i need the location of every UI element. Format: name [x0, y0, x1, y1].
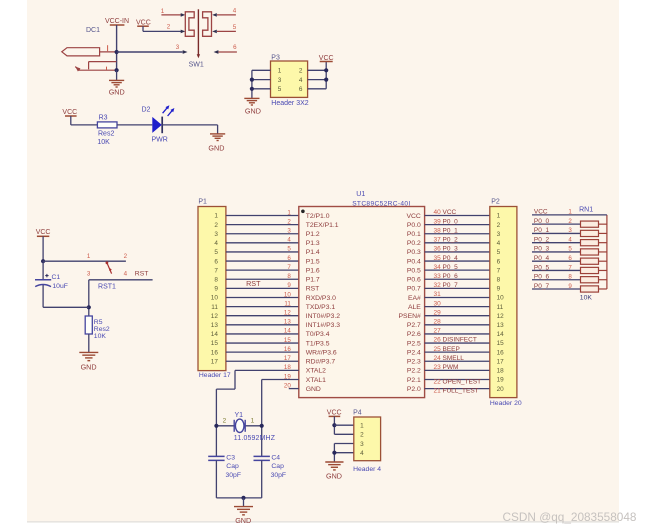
- svg-text:6: 6: [287, 255, 291, 262]
- svg-text:P2.7: P2.7: [407, 322, 421, 329]
- svg-text:P0_5: P0_5: [534, 264, 550, 271]
- svg-text:6: 6: [497, 258, 501, 265]
- svg-text:11: 11: [284, 300, 291, 307]
- svg-text:T2/P1.0: T2/P1.0: [306, 213, 330, 220]
- svg-text:1: 1: [497, 213, 501, 220]
- svg-text:C4: C4: [271, 455, 280, 462]
- svg-text:1: 1: [161, 8, 165, 15]
- svg-text:6: 6: [233, 44, 237, 51]
- svg-text:GND: GND: [81, 362, 97, 371]
- svg-text:30pF: 30pF: [271, 472, 287, 479]
- svg-text:4: 4: [497, 240, 501, 247]
- svg-text:P0.5: P0.5: [407, 267, 421, 274]
- svg-text:4: 4: [568, 236, 572, 243]
- svg-text:P0.2: P0.2: [407, 240, 421, 247]
- svg-text:10: 10: [211, 295, 219, 302]
- svg-text:P0_3: P0_3: [443, 246, 459, 253]
- svg-text:1: 1: [287, 209, 291, 216]
- svg-text:Res2: Res2: [98, 130, 114, 137]
- svg-text:24: 24: [434, 355, 442, 362]
- svg-text:3: 3: [176, 44, 180, 51]
- svg-text:P0_4: P0_4: [443, 255, 459, 262]
- svg-text:5: 5: [568, 246, 572, 253]
- svg-text:11.0592MHZ: 11.0592MHZ: [234, 435, 275, 442]
- svg-text:35: 35: [434, 255, 442, 262]
- svg-text:U1: U1: [356, 191, 365, 198]
- svg-text:RD#/P3.7: RD#/P3.7: [306, 359, 336, 366]
- svg-text:INT1#/P3.3: INT1#/P3.3: [306, 322, 341, 329]
- svg-text:P0_2: P0_2: [534, 236, 550, 243]
- svg-text:9: 9: [287, 282, 291, 289]
- svg-text:WR#/P3.6: WR#/P3.6: [306, 349, 337, 356]
- svg-text:5: 5: [287, 246, 291, 253]
- svg-text:13: 13: [284, 319, 291, 326]
- svg-text:P1.3: P1.3: [306, 240, 320, 247]
- svg-text:30: 30: [434, 300, 442, 307]
- svg-text:10uF: 10uF: [52, 283, 68, 290]
- svg-text:GND: GND: [208, 143, 224, 152]
- svg-text:ALE: ALE: [408, 304, 421, 311]
- svg-text:5: 5: [497, 249, 501, 256]
- svg-text:RST: RST: [246, 279, 261, 288]
- svg-text:Header 3X2: Header 3X2: [271, 100, 308, 107]
- svg-text:1: 1: [278, 68, 282, 75]
- svg-text:P1.5: P1.5: [306, 258, 320, 265]
- svg-text:22: 22: [434, 378, 442, 385]
- svg-text:P0_1: P0_1: [443, 227, 459, 234]
- svg-text:P0.6: P0.6: [407, 277, 421, 284]
- svg-text:CSDN @qq_2083558048: CSDN @qq_2083558048: [503, 510, 637, 524]
- svg-text:P0_1: P0_1: [534, 227, 550, 234]
- svg-text:1: 1: [360, 423, 364, 430]
- svg-text:1: 1: [251, 418, 255, 425]
- svg-text:15: 15: [284, 337, 291, 344]
- svg-text:9: 9: [214, 286, 218, 293]
- svg-text:R3: R3: [99, 114, 108, 121]
- svg-text:5: 5: [278, 86, 282, 93]
- svg-text:VCC: VCC: [136, 19, 151, 26]
- svg-text:13: 13: [497, 322, 505, 329]
- svg-text:P0_6: P0_6: [534, 274, 550, 281]
- svg-text:15: 15: [211, 340, 219, 347]
- svg-text:10K: 10K: [97, 139, 110, 146]
- svg-text:5: 5: [233, 24, 237, 31]
- svg-text:10: 10: [497, 295, 505, 302]
- svg-text:VCC: VCC: [319, 55, 334, 62]
- svg-text:14: 14: [497, 331, 505, 338]
- svg-text:P0_2: P0_2: [443, 237, 459, 244]
- svg-text:P2.3: P2.3: [407, 359, 421, 366]
- svg-text:RN1: RN1: [579, 207, 593, 214]
- svg-text:4: 4: [360, 450, 364, 457]
- svg-text:3: 3: [568, 227, 572, 234]
- svg-text:P1.7: P1.7: [306, 277, 320, 284]
- svg-text:GND: GND: [306, 386, 321, 393]
- svg-text:PWR: PWR: [152, 136, 168, 143]
- svg-text:C1: C1: [52, 274, 61, 281]
- svg-text:P2.4: P2.4: [407, 349, 421, 356]
- svg-text:20: 20: [497, 386, 505, 393]
- svg-text:P0_7: P0_7: [443, 282, 459, 289]
- svg-text:GND: GND: [235, 516, 251, 525]
- svg-text:10K: 10K: [580, 295, 593, 302]
- svg-text:T0/P3.4: T0/P3.4: [306, 331, 330, 338]
- svg-text:R5: R5: [94, 319, 103, 326]
- svg-text:VCC: VCC: [406, 213, 420, 220]
- svg-text:25: 25: [434, 346, 442, 353]
- svg-text:17: 17: [284, 355, 291, 362]
- svg-text:2: 2: [568, 218, 572, 225]
- svg-text:4: 4: [124, 270, 128, 277]
- svg-text:10: 10: [284, 291, 291, 298]
- svg-text:2: 2: [497, 222, 501, 229]
- svg-text:BEEP: BEEP: [443, 346, 460, 353]
- svg-text:37: 37: [434, 237, 442, 244]
- svg-text:RST: RST: [306, 286, 320, 293]
- svg-text:SMELL: SMELL: [443, 355, 465, 362]
- svg-text:P0_3: P0_3: [534, 246, 550, 253]
- svg-text:33: 33: [434, 273, 442, 280]
- svg-text:P0_4: P0_4: [534, 255, 550, 262]
- svg-text:DISINFECT: DISINFECT: [443, 337, 477, 344]
- svg-text:GND: GND: [245, 106, 261, 115]
- svg-text:P2: P2: [491, 198, 500, 205]
- svg-text:P2.1: P2.1: [407, 377, 421, 384]
- svg-text:16: 16: [497, 349, 505, 356]
- svg-text:FULL_TEST: FULL_TEST: [443, 387, 479, 394]
- svg-text:P0_6: P0_6: [443, 273, 459, 280]
- svg-text:40: 40: [434, 209, 442, 216]
- svg-text:RST: RST: [135, 271, 149, 278]
- svg-text:16: 16: [211, 349, 219, 356]
- svg-text:XTAL1: XTAL1: [306, 377, 326, 384]
- svg-text:DC1: DC1: [86, 27, 100, 34]
- svg-text:P4: P4: [353, 409, 362, 416]
- svg-text:21: 21: [434, 387, 442, 394]
- svg-text:Header 20: Header 20: [490, 400, 522, 407]
- svg-text:P0_7: P0_7: [534, 283, 550, 290]
- svg-text:2: 2: [287, 218, 291, 225]
- svg-text:34: 34: [434, 264, 442, 271]
- svg-text:2: 2: [214, 222, 218, 229]
- svg-text:P0_0: P0_0: [534, 218, 550, 225]
- svg-text:PSEN#: PSEN#: [399, 313, 422, 320]
- svg-text:P1.4: P1.4: [306, 249, 320, 256]
- svg-text:8: 8: [568, 274, 572, 281]
- svg-text:P1.6: P1.6: [306, 267, 320, 274]
- svg-text:3: 3: [287, 228, 291, 235]
- svg-text:1: 1: [568, 209, 572, 216]
- svg-text:VCC: VCC: [534, 209, 548, 216]
- svg-text:36: 36: [434, 246, 442, 253]
- svg-text:7: 7: [287, 264, 291, 271]
- svg-text:8: 8: [497, 276, 501, 283]
- svg-text:13: 13: [211, 322, 219, 329]
- svg-text:8: 8: [214, 276, 218, 283]
- svg-text:29: 29: [434, 309, 442, 316]
- svg-text:1: 1: [214, 213, 218, 220]
- svg-text:STC89C52RC-40I: STC89C52RC-40I: [352, 200, 410, 207]
- svg-text:6: 6: [214, 258, 218, 265]
- svg-text:4: 4: [299, 77, 303, 84]
- svg-text:SW1: SW1: [189, 61, 204, 68]
- svg-text:6: 6: [568, 255, 572, 262]
- svg-text:EA#: EA#: [408, 295, 421, 302]
- svg-text:8: 8: [287, 273, 291, 280]
- svg-text:VCC: VCC: [62, 109, 77, 116]
- svg-text:3: 3: [360, 441, 364, 448]
- svg-text:11: 11: [211, 304, 218, 311]
- svg-text:P1.2: P1.2: [306, 231, 320, 238]
- svg-text:9: 9: [568, 283, 572, 290]
- svg-text:12: 12: [497, 313, 505, 320]
- svg-text:4: 4: [287, 237, 291, 244]
- svg-text:PWM: PWM: [443, 364, 459, 371]
- svg-text:VCC-IN: VCC-IN: [105, 18, 129, 25]
- svg-text:P0.0: P0.0: [407, 222, 421, 229]
- svg-text:3: 3: [214, 231, 218, 238]
- svg-text:Y1: Y1: [235, 412, 244, 419]
- svg-text:P0.3: P0.3: [407, 249, 421, 256]
- svg-text:15: 15: [497, 340, 505, 347]
- svg-text:4: 4: [214, 240, 218, 247]
- svg-text:18: 18: [497, 368, 505, 375]
- svg-text:2: 2: [299, 68, 303, 75]
- svg-text:XTAL2: XTAL2: [306, 368, 326, 375]
- svg-text:32: 32: [434, 282, 442, 289]
- svg-text:GND: GND: [109, 88, 125, 97]
- svg-text:30pF: 30pF: [226, 472, 242, 479]
- svg-text:7: 7: [497, 267, 501, 274]
- svg-text:3: 3: [278, 77, 282, 84]
- svg-text:4: 4: [233, 7, 237, 14]
- svg-text:12: 12: [211, 313, 219, 320]
- svg-text:16: 16: [284, 346, 291, 353]
- svg-text:INT0#/P3.2: INT0#/P3.2: [306, 313, 341, 320]
- svg-text:28: 28: [434, 319, 442, 326]
- svg-text:P2.0: P2.0: [407, 386, 421, 393]
- svg-text:3: 3: [87, 270, 91, 277]
- svg-text:31: 31: [434, 291, 442, 298]
- svg-text:P0.7: P0.7: [407, 286, 421, 293]
- svg-text:19: 19: [497, 377, 505, 384]
- svg-text:26: 26: [434, 337, 442, 344]
- svg-text:23: 23: [434, 364, 442, 371]
- svg-text:17: 17: [497, 358, 505, 365]
- svg-text:T1/P3.5: T1/P3.5: [306, 340, 330, 347]
- svg-text:Header 4: Header 4: [353, 466, 381, 473]
- svg-text:Header 17: Header 17: [199, 372, 231, 379]
- svg-text:GND: GND: [326, 472, 342, 481]
- svg-text:P3: P3: [271, 54, 280, 61]
- svg-text:T2EX/P1.1: T2EX/P1.1: [306, 222, 339, 229]
- svg-text:39: 39: [434, 218, 442, 225]
- svg-text:14: 14: [284, 328, 291, 335]
- svg-text:2: 2: [223, 418, 227, 425]
- svg-text:14: 14: [211, 331, 219, 338]
- svg-text:P0_5: P0_5: [443, 264, 459, 271]
- svg-text:P2.6: P2.6: [407, 331, 421, 338]
- svg-text:C3: C3: [226, 455, 235, 462]
- svg-text:17: 17: [211, 358, 219, 365]
- svg-text:P0_0: P0_0: [443, 218, 459, 225]
- svg-text:P2.2: P2.2: [407, 368, 421, 375]
- svg-text:11: 11: [497, 304, 504, 311]
- svg-text:2: 2: [360, 432, 364, 439]
- svg-text:27: 27: [434, 328, 442, 335]
- svg-text:2: 2: [124, 253, 128, 260]
- svg-text:P0.1: P0.1: [407, 231, 421, 238]
- svg-text:5: 5: [214, 249, 218, 256]
- svg-text:2: 2: [167, 23, 171, 30]
- svg-text:P0.4: P0.4: [407, 258, 421, 265]
- svg-text:RXD/P3.0: RXD/P3.0: [306, 295, 336, 302]
- svg-text:P1: P1: [198, 198, 207, 205]
- svg-text:6: 6: [299, 86, 303, 93]
- svg-text:RST1: RST1: [98, 283, 116, 290]
- svg-text:VCC: VCC: [443, 209, 457, 216]
- svg-text:12: 12: [284, 310, 291, 317]
- svg-text:7: 7: [214, 267, 218, 274]
- svg-text:P2.5: P2.5: [407, 340, 421, 347]
- svg-text:38: 38: [434, 227, 442, 234]
- svg-text:Cap: Cap: [226, 463, 239, 470]
- svg-text:TXD/P3.1: TXD/P3.1: [306, 304, 336, 311]
- svg-text:10K: 10K: [94, 333, 107, 340]
- svg-text:7: 7: [568, 264, 572, 271]
- svg-text:VCC: VCC: [36, 229, 51, 236]
- svg-text:VCC: VCC: [327, 410, 342, 417]
- svg-text:1: 1: [87, 253, 91, 260]
- svg-text:9: 9: [497, 286, 501, 293]
- svg-text:Cap: Cap: [271, 463, 284, 470]
- svg-text:OPEN_TEST: OPEN_TEST: [443, 378, 482, 385]
- svg-text:D2: D2: [142, 106, 151, 113]
- svg-text:3: 3: [497, 231, 501, 238]
